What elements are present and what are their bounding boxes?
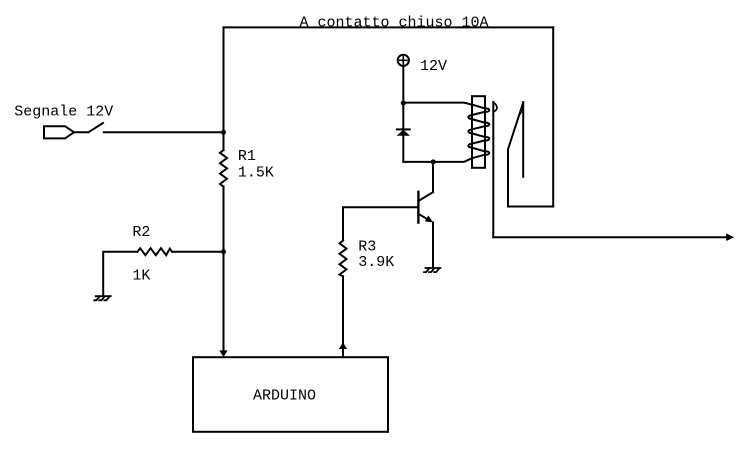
svg-text:1.5K: 1.5K — [238, 164, 274, 181]
svg-text:Segnale 12V: Segnale 12V — [14, 104, 113, 121]
arrowhead out of Arduino (R3 line) — [339, 342, 347, 349]
transistor Q1 — [418, 162, 433, 268]
wire coil top node to diode — [402, 103, 404, 129]
relay contact blade — [508, 102, 523, 206]
wire switch to junction — [104, 131, 224, 133]
svg-text:R1: R1 — [238, 148, 256, 165]
wire coil bottom rail — [403, 161, 433, 163]
node junction collector — [431, 159, 436, 164]
wire R1 to R2 junction to Arduino — [223, 187, 225, 351]
connector signal tag — [44, 126, 74, 138]
wire R2 to junction — [172, 251, 223, 253]
node junction coil top — [401, 101, 406, 106]
ground GND2 (emitter) — [424, 268, 440, 272]
svg-text:R3: R3 — [358, 238, 376, 255]
wire contact loop bottom — [508, 206, 553, 208]
svg-text:1K: 1K — [132, 268, 150, 285]
wire right edge of relay contact loop — [552, 27, 554, 206]
wire ground to R2 — [103, 252, 137, 296]
arrowhead into Arduino (left) — [219, 350, 227, 357]
switch S1 arm — [88, 123, 103, 132]
svg-text:A contatto chiuso 10A: A contatto chiuso 10A — [300, 14, 489, 31]
supply +12V symbol — [398, 55, 409, 66]
resistor R2 — [137, 248, 172, 255]
relay fixed contact — [522, 102, 524, 177]
svg-text:R2: R2 — [132, 224, 150, 241]
resistor R1 — [220, 150, 227, 187]
relay coil K1 winding — [403, 103, 489, 162]
ground GND1 — [94, 296, 110, 300]
relay armature flag — [493, 103, 497, 112]
transistor Q1 base wire — [343, 206, 418, 208]
wire main vertical (net from top rail to Arduino input) — [223, 27, 225, 150]
relay coil K1 core rectangle — [472, 96, 485, 168]
svg-text:12V: 12V — [420, 58, 447, 75]
relay contact blade tip tick — [520, 107, 523, 114]
block ARDUINO — [193, 357, 388, 432]
relay armature line — [492, 102, 494, 237]
svg-text:3.9K: 3.9K — [358, 254, 394, 271]
wire output — [493, 236, 727, 238]
wire diode to bottom rail — [402, 136, 404, 162]
node junction R2 — [221, 249, 226, 254]
arrowhead output — [726, 233, 734, 241]
svg-text:ARDUINO: ARDUINO — [253, 387, 316, 404]
switch S1 fixed stub — [74, 131, 88, 133]
wire top rail — [224, 26, 554, 28]
diode D1 flyback — [397, 129, 410, 135]
resistor R3 — [340, 207, 347, 356]
wire supply to coil node — [402, 66, 404, 103]
node junction signal/R1 — [221, 130, 226, 135]
